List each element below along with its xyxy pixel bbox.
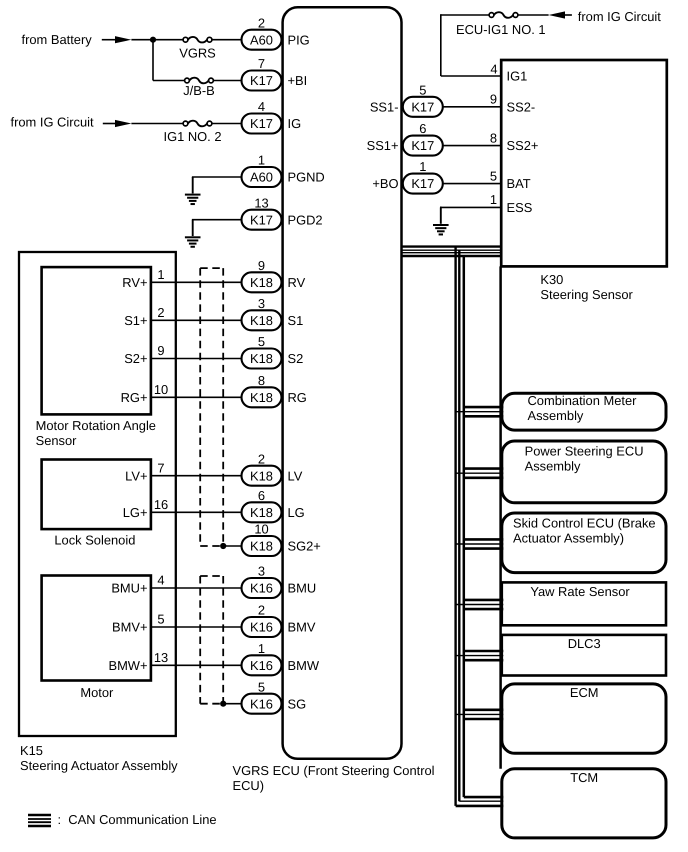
svg-text:3: 3 <box>258 296 265 311</box>
svg-text:K17: K17 <box>411 99 434 114</box>
connector K18 pin 3 (S1) <box>242 296 304 330</box>
svg-text:9: 9 <box>258 258 265 273</box>
svg-text:K18: K18 <box>250 390 273 405</box>
svg-text:BAT: BAT <box>507 176 531 191</box>
connector K16 pin 1 (BMW) <box>242 641 320 675</box>
svg-text:BMU: BMU <box>288 581 317 596</box>
connector K16 pin 5 (SG) <box>242 679 307 713</box>
CAN trunk line 2 <box>458 250 460 801</box>
node from Battery <box>22 32 93 47</box>
svg-text:K18: K18 <box>250 505 273 520</box>
box K15 Steering Actuator Assembly <box>19 252 176 736</box>
wire LV+ pin 7 <box>125 460 241 483</box>
wire BMW+ pin 13 <box>108 650 241 673</box>
connector A60 pin 2 (PIG) <box>242 15 310 49</box>
svg-text:VGRS ECU (Front Steering Contr: VGRS ECU (Front Steering Control <box>233 763 435 778</box>
CAN loop-left line <box>463 256 466 797</box>
svg-text:ESS: ESS <box>507 200 533 215</box>
wire S2+ pin 9 <box>124 343 241 366</box>
svg-text:S1+: S1+ <box>124 313 147 328</box>
legend CAN Communication Line text <box>58 812 217 827</box>
svg-text:SG2+: SG2+ <box>288 539 321 554</box>
wire SG from shield <box>223 703 241 705</box>
svg-text:+BI: +BI <box>288 73 308 88</box>
svg-text:13: 13 <box>254 195 268 210</box>
svg-text:K18: K18 <box>250 275 273 290</box>
svg-text:2: 2 <box>258 603 265 618</box>
svg-text:RG: RG <box>288 390 307 405</box>
svg-text:13: 13 <box>154 650 168 665</box>
box Yaw Rate Sensor <box>502 582 666 625</box>
box ECM <box>502 684 666 753</box>
connector K18 pin 8 (RG) <box>242 373 307 407</box>
svg-text:LG+: LG+ <box>123 505 148 520</box>
svg-text:Skid Control ECU (Brake: Skid Control ECU (Brake <box>513 516 656 531</box>
node from IG Circuit (right) <box>578 9 661 24</box>
svg-text:10: 10 <box>254 522 268 537</box>
svg-text:+BO: +BO <box>372 176 398 191</box>
svg-text:SS1-: SS1- <box>370 99 399 114</box>
svg-text:BMV+: BMV+ <box>112 620 147 635</box>
svg-text:2: 2 <box>258 451 265 466</box>
fuse VGRS <box>179 37 216 60</box>
svg-text:3: 3 <box>258 564 265 579</box>
box Power Steering ECU Assembly <box>502 441 666 503</box>
svg-text:SG: SG <box>288 696 307 711</box>
wire from IG Circuit right <box>563 14 572 16</box>
svg-text:1: 1 <box>419 159 426 174</box>
svg-text:5: 5 <box>157 612 164 627</box>
arrow from Battery <box>115 36 131 43</box>
wire fuse J/B-B to K17 +BI <box>213 80 242 82</box>
wire ESS pin 1 <box>441 192 532 215</box>
wire arrow to fuse ECU-IG1 <box>517 14 548 16</box>
CAN trunk line 1 <box>454 247 456 806</box>
wire SG2+ from shield <box>223 545 241 547</box>
CAN stub to Skid Control ECU <box>456 539 504 548</box>
svg-text:2: 2 <box>157 305 164 320</box>
CAN stub to ECM <box>456 710 504 719</box>
label VGRS ECU (Front Steering Control ECU) <box>233 763 435 793</box>
CAN stub to Power Steering ECU <box>456 469 504 478</box>
svg-text:K16: K16 <box>250 696 273 711</box>
CAN bundle ECU to K30 <box>402 247 502 256</box>
svg-text:Steering Sensor: Steering Sensor <box>540 287 633 302</box>
svg-text:PGD2: PGD2 <box>288 212 323 227</box>
svg-text:IG1: IG1 <box>507 69 528 84</box>
svg-text:8: 8 <box>258 373 265 388</box>
svg-text:DLC3: DLC3 <box>568 636 601 651</box>
connector A60 pin 1 (PGND) <box>242 153 325 187</box>
CAN stub to Yaw Rate Sensor <box>456 600 504 609</box>
junction shield 1 to SG2+ <box>220 543 226 549</box>
box Skid Control ECU (Brake Actuator Assembly) <box>502 513 666 573</box>
svg-text:from IG Circuit: from IG Circuit <box>578 9 661 24</box>
arrow from IG Circuit (right) <box>549 11 565 18</box>
connector K17 pin 4 (IG) <box>242 99 302 133</box>
svg-text:Assembly: Assembly <box>528 408 584 423</box>
svg-text::: : <box>58 812 62 827</box>
box DLC3 <box>502 635 666 676</box>
svg-text:Sensor: Sensor <box>36 433 78 448</box>
wire +BO to K30 BAT pin 5 <box>443 168 531 191</box>
svg-text:from Battery: from Battery <box>22 32 93 47</box>
shield box 2 (motor wires) <box>200 576 223 704</box>
VGRS ECU box (Front Steering Control ECU) <box>283 7 402 759</box>
connector K18 pin 5 (S2) <box>242 334 304 368</box>
svg-text:Steering Actuator Assembly: Steering Actuator Assembly <box>20 758 178 773</box>
svg-text:A60: A60 <box>250 170 273 185</box>
svg-text:VGRS: VGRS <box>179 45 216 60</box>
svg-text:SS2-: SS2- <box>507 99 536 114</box>
CAN stub to TCM <box>456 797 504 806</box>
svg-text:5: 5 <box>258 334 265 349</box>
connector K16 pin 2 (BMV) <box>242 603 316 637</box>
svg-text:LV: LV <box>288 468 303 483</box>
svg-text:4: 4 <box>157 573 164 588</box>
connector K17 pin 6 (SS1+/SS2+) <box>367 121 443 155</box>
wire SS1- to K30 SS2- pin 9 <box>443 92 535 115</box>
svg-text:K16: K16 <box>250 581 273 596</box>
svg-text:K17: K17 <box>411 176 434 191</box>
svg-text:S2: S2 <box>288 351 304 366</box>
svg-text:Lock Solenoid: Lock Solenoid <box>54 532 135 547</box>
svg-text:K18: K18 <box>250 313 273 328</box>
wire RV+ pin 1 <box>122 267 241 290</box>
wire battery to fuse VGRS <box>131 39 183 41</box>
CAN stub to DLC3 <box>456 651 504 660</box>
label Lock Solenoid <box>54 532 135 547</box>
svg-text:K18: K18 <box>250 468 273 483</box>
arrow from IG Circuit (left) <box>115 120 131 127</box>
svg-text:PIG: PIG <box>288 32 310 47</box>
connector K16 pin 3 (BMU) <box>242 564 317 598</box>
svg-text:IG: IG <box>288 116 302 131</box>
legend CAN Communication Line symbol <box>28 815 51 826</box>
svg-text:1: 1 <box>258 641 265 656</box>
svg-text:10: 10 <box>154 382 168 397</box>
svg-text:6: 6 <box>258 488 265 503</box>
svg-text:6: 6 <box>419 121 426 136</box>
wire to fuse IG1 NO. 2 <box>131 123 183 125</box>
svg-text:8: 8 <box>490 130 497 145</box>
svg-text:5: 5 <box>490 168 497 183</box>
box Combination Meter Assembly <box>502 393 666 430</box>
svg-text:K18: K18 <box>250 351 273 366</box>
box K30 Steering Sensor <box>501 60 667 266</box>
fuse ECU-IG1 NO. 1 <box>456 12 546 37</box>
label Motor Rotation Angle Sensor <box>36 418 156 448</box>
svg-text:K17: K17 <box>411 138 434 153</box>
wire fuse VGRS to A60 <box>211 39 241 41</box>
svg-text:K18: K18 <box>250 539 273 554</box>
svg-text:TCM: TCM <box>570 770 598 785</box>
wire branch to fuse J/B-B <box>153 80 185 82</box>
svg-text:Combination Meter: Combination Meter <box>528 393 638 408</box>
svg-text:K17: K17 <box>250 212 273 227</box>
svg-text:K15: K15 <box>20 743 43 758</box>
svg-text:5: 5 <box>258 679 265 694</box>
box TCM <box>502 769 666 838</box>
svg-text:7: 7 <box>258 56 265 71</box>
wire S1+ pin 2 <box>124 305 241 328</box>
svg-text:Actuator Assembly): Actuator Assembly) <box>513 531 624 546</box>
svg-text:ECU): ECU) <box>233 778 265 793</box>
connector K18 pin 9 (RV) <box>242 258 306 292</box>
box Lock Solenoid <box>42 460 151 530</box>
connector K18 pin 2 (LV) <box>242 451 303 485</box>
wire RG+ pin 10 <box>121 382 242 405</box>
wire LG+ pin 16 <box>123 497 242 520</box>
svg-text:S2+: S2+ <box>124 351 147 366</box>
svg-text:BMW+: BMW+ <box>108 658 147 673</box>
connector K18 pin 6 (LG) <box>242 488 305 522</box>
svg-text:9: 9 <box>490 92 497 107</box>
svg-text:K16: K16 <box>250 658 273 673</box>
svg-text:Motor: Motor <box>80 685 114 700</box>
connector K17 pin 13 (PGD2) <box>242 195 323 229</box>
svg-text:Motor Rotation Angle: Motor Rotation Angle <box>36 418 156 433</box>
svg-text:BMW: BMW <box>288 658 320 673</box>
ground PGD2 <box>185 220 201 247</box>
svg-text:K17: K17 <box>250 116 273 131</box>
svg-text:Assembly: Assembly <box>525 459 581 474</box>
svg-text:2: 2 <box>258 15 265 30</box>
svg-text:1: 1 <box>157 267 164 282</box>
svg-text:SS2+: SS2+ <box>507 138 539 153</box>
connector K17 pin 5 (SS1-/SS2-) <box>370 82 443 116</box>
CAN stub to Combination Meter <box>456 407 504 416</box>
connector K17 pin 1 (+BO/BAT) <box>372 159 442 193</box>
svg-text:LG: LG <box>288 505 305 520</box>
svg-text:ECM: ECM <box>570 685 599 700</box>
svg-text:4: 4 <box>490 62 497 77</box>
svg-text:BMV: BMV <box>288 620 316 635</box>
wire ESS down <box>440 207 442 209</box>
ground PGND <box>185 177 201 204</box>
svg-text:A60: A60 <box>250 32 273 47</box>
node from IG Circuit (left) <box>11 114 94 129</box>
svg-text:Power Steering ECU: Power Steering ECU <box>525 444 644 459</box>
svg-text:Yaw Rate Sensor: Yaw Rate Sensor <box>530 584 630 599</box>
svg-text:IG1 NO. 2: IG1 NO. 2 <box>163 129 221 144</box>
ground ESS <box>433 207 449 234</box>
label Motor <box>80 685 114 700</box>
svg-text:9: 9 <box>157 343 164 358</box>
svg-text:from IG Circuit: from IG Circuit <box>11 114 94 129</box>
svg-text:CAN Communication Line: CAN Communication Line <box>68 812 216 827</box>
svg-text:BMU+: BMU+ <box>111 581 147 596</box>
wire BMU+ pin 4 <box>111 573 241 596</box>
wire battery branch down <box>152 40 154 81</box>
svg-text:7: 7 <box>157 460 164 475</box>
wire from IG Circuit <box>103 123 116 125</box>
svg-text:SS1+: SS1+ <box>367 138 399 153</box>
svg-text:S1: S1 <box>288 313 304 328</box>
svg-text:LV+: LV+ <box>125 468 147 483</box>
svg-text:K16: K16 <box>250 620 273 635</box>
svg-text:1: 1 <box>258 153 265 168</box>
label K30 Steering Sensor <box>540 272 633 302</box>
svg-text:5: 5 <box>419 82 426 97</box>
svg-text:PGND: PGND <box>288 170 325 185</box>
junction battery branch <box>150 37 156 43</box>
svg-text:16: 16 <box>154 497 168 512</box>
wire IG1 pin 4 <box>441 62 527 84</box>
CAN loop-right line <box>499 266 502 768</box>
svg-text:4: 4 <box>258 99 265 114</box>
wire SS1+ to K30 SS2+ pin 8 <box>443 130 539 153</box>
shield box 1 (sensor/solenoid wires) <box>200 268 223 546</box>
wire BMV+ pin 5 <box>112 612 241 635</box>
svg-text:J/B-B: J/B-B <box>183 83 215 98</box>
svg-text:ECU-IG1 NO. 1: ECU-IG1 NO. 1 <box>456 22 546 37</box>
wire PGD2 <box>193 219 242 222</box>
connector K18 pin 10 (SG2+) <box>242 522 321 556</box>
fuse J/B-B <box>183 78 215 98</box>
box Motor Rotation Angle Sensor <box>42 267 151 414</box>
wire from Battery <box>102 39 116 41</box>
fuse IG1 NO. 2 <box>163 121 221 144</box>
box Motor <box>42 576 151 681</box>
svg-text:K30: K30 <box>540 272 563 287</box>
label K15 Steering Actuator Assembly <box>20 743 178 773</box>
svg-text:RV: RV <box>288 275 306 290</box>
wire fuse IG1 NO. 2 to K17 IG <box>211 123 241 125</box>
svg-text:K17: K17 <box>250 73 273 88</box>
junction shield 2 to SG <box>220 701 226 707</box>
wire PGND <box>193 176 242 179</box>
svg-text:RV+: RV+ <box>122 275 147 290</box>
wire fuse to IG1 corner <box>441 14 490 76</box>
svg-text:RG+: RG+ <box>121 390 148 405</box>
connector K17 pin 7 (+BI) <box>242 56 308 90</box>
svg-text:1: 1 <box>490 192 497 207</box>
